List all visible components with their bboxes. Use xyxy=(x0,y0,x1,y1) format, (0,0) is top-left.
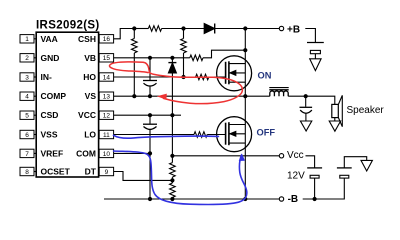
ground below battery B1 xyxy=(310,59,321,71)
svg-text:VCC: VCC xyxy=(78,110,96,120)
wire VS rail pin13 xyxy=(114,95,270,97)
wire CSH pin16 to top rail xyxy=(114,29,135,39)
node VS output xyxy=(304,94,308,98)
pin labels left xyxy=(41,34,71,177)
svg-text:3: 3 xyxy=(25,74,29,81)
resistor R3 HO gate xyxy=(196,74,209,80)
node HO pullup xyxy=(181,75,185,79)
wire ON trunk xyxy=(244,29,246,97)
wire top rail diode to +B xyxy=(215,28,280,30)
battery B2 12V xyxy=(307,168,322,199)
svg-text:Vcc: Vcc xyxy=(287,150,304,161)
pin 9 box xyxy=(99,167,113,175)
node trunk bootstrap feed xyxy=(243,48,247,52)
resistor R6 DT divider lower xyxy=(170,180,176,199)
ground below speaker xyxy=(329,121,340,131)
pin 2 box xyxy=(20,54,36,62)
node VS trunk xyxy=(243,94,247,98)
svg-text:VB: VB xyxy=(84,53,96,63)
node VB diode xyxy=(170,56,174,60)
pin 13 box xyxy=(99,92,113,100)
terminal -B xyxy=(279,197,283,201)
wire top rail to diode xyxy=(162,28,205,30)
svg-text:OFF: OFF xyxy=(257,128,276,138)
svg-text:ON: ON xyxy=(258,70,272,80)
pin 4 box xyxy=(20,92,36,100)
svg-text:8: 8 xyxy=(25,169,29,176)
annotation red arrowhead xyxy=(157,94,167,100)
battery B1 xyxy=(307,43,324,59)
node -B com xyxy=(148,197,152,201)
svg-text:COM: COM xyxy=(76,148,96,158)
svg-text:HO: HO xyxy=(83,72,96,82)
pin 14 box xyxy=(99,73,113,81)
pin 1 box xyxy=(20,35,36,43)
wire VS output node xyxy=(288,96,335,104)
node VB cap xyxy=(148,56,152,60)
svg-text:5: 5 xyxy=(25,113,29,120)
resistor R1 top rail xyxy=(148,26,161,32)
svg-text:CSD: CSD xyxy=(41,110,59,120)
svg-text:GND: GND xyxy=(41,53,60,63)
svg-text:IN-: IN- xyxy=(41,72,53,82)
svg-text:IRS2092(S): IRS2092(S) xyxy=(36,19,100,31)
capacitor C2 VCC decoupling xyxy=(143,115,157,153)
resistor R2 VB bootstrap xyxy=(190,55,203,61)
svg-text:LO: LO xyxy=(84,130,96,140)
resistor R5 DT divider upper xyxy=(170,156,176,181)
diode D2 bootstrap VCC-VB xyxy=(168,58,176,156)
capacitor C1 bootstrap VB-VS xyxy=(143,58,157,96)
svg-text:12V: 12V xyxy=(287,171,305,182)
pin 6 box xyxy=(20,130,36,138)
node Vcc divider xyxy=(170,154,174,158)
svg-text:Speaker: Speaker xyxy=(347,105,385,116)
wire VCC rail pin12 xyxy=(114,114,181,116)
annotation red loop arrow xyxy=(109,62,242,104)
wire +B to battery B1 xyxy=(305,29,315,43)
node top rail R column xyxy=(132,26,136,30)
pin 12 box xyxy=(99,111,113,119)
ground below output cap xyxy=(300,121,311,131)
annotation blue arrowhead xyxy=(239,153,245,161)
wire VB rail pin15 xyxy=(114,57,190,59)
svg-text:2: 2 xyxy=(25,55,29,62)
svg-text:OCSET: OCSET xyxy=(41,167,71,177)
wire COM pin10 xyxy=(114,152,150,154)
svg-text:+B: +B xyxy=(287,24,300,35)
wire top rail segment to resistor R1 xyxy=(134,28,148,30)
pin 11 box xyxy=(99,130,113,138)
svg-text:VS: VS xyxy=(85,91,97,101)
pin 15 box xyxy=(99,54,113,62)
node VCC cap xyxy=(148,113,152,117)
resistor R4 LO gate xyxy=(194,132,207,138)
annotation blue LO line xyxy=(114,135,247,204)
pin 10 box xyxy=(99,149,113,157)
op-amp U1 IRS2092(S) IC body xyxy=(36,32,98,177)
ground right of battery B3 xyxy=(361,160,372,171)
pin 7 box xyxy=(20,149,36,157)
svg-text:10: 10 xyxy=(103,151,111,158)
node top rail R2 column xyxy=(181,26,185,30)
diode D1 xyxy=(204,24,215,34)
node COM cap xyxy=(148,151,152,155)
svg-text:6: 6 xyxy=(25,132,29,139)
wire DT pin9 to divider tap xyxy=(114,172,173,181)
battery B3 xyxy=(337,157,367,178)
pin 3 box xyxy=(20,73,36,81)
pin 8 box xyxy=(20,167,36,175)
wire vertical resistor column at x=183.5 xyxy=(181,29,187,78)
pin 16 box xyxy=(99,35,113,43)
svg-text:DT: DT xyxy=(85,167,97,177)
wire OFF trunk xyxy=(244,96,246,199)
transistor Q2 OFF MOSFET xyxy=(217,117,252,152)
wire VB resistor to ON drain trunk xyxy=(203,50,245,58)
node -B battery xyxy=(313,197,317,201)
node VS cap xyxy=(148,94,152,98)
node -B trunk xyxy=(243,197,247,201)
svg-text:14: 14 xyxy=(103,74,111,81)
svg-text:4: 4 xyxy=(25,94,29,101)
svg-text:16: 16 xyxy=(103,36,111,43)
node top rail trunk xyxy=(243,26,247,30)
node VS r1 xyxy=(132,94,136,98)
wire LO rail pin11 xyxy=(114,134,194,136)
speaker SP1 xyxy=(332,95,343,126)
pin 5 box xyxy=(20,111,36,119)
pin labels right xyxy=(76,34,97,177)
wire -B bottom rail xyxy=(104,198,279,200)
wire Vcc to battery B2 xyxy=(306,156,315,168)
wire HO rail pin14 xyxy=(114,76,196,78)
svg-text:VSS: VSS xyxy=(41,130,58,140)
svg-text:VREF: VREF xyxy=(41,148,64,158)
wire COM cap column to -B rail xyxy=(149,153,151,199)
terminal Vcc xyxy=(279,154,283,158)
svg-text:9: 9 xyxy=(105,169,109,176)
svg-text:7: 7 xyxy=(25,151,29,158)
svg-text:12: 12 xyxy=(103,113,111,120)
inductor L1 xyxy=(269,88,288,97)
wire gate lead ON xyxy=(209,76,226,78)
svg-text:1: 1 xyxy=(25,36,29,43)
pin numbers xyxy=(25,36,110,176)
capacitor C3 output xyxy=(300,96,313,121)
wire vertical resistor column at x=134.3 xyxy=(132,29,138,97)
wire Vcc terminal line xyxy=(172,155,279,157)
svg-text:VAA: VAA xyxy=(41,34,58,44)
annotation blue COM loop arrow xyxy=(114,151,247,205)
svg-text:13: 13 xyxy=(103,94,111,101)
svg-text:COMP: COMP xyxy=(41,91,67,101)
node VCC diode xyxy=(170,113,174,117)
transistor Q1 ON MOSFET xyxy=(217,56,252,91)
node DT tap xyxy=(170,178,174,182)
svg-text:11: 11 xyxy=(103,132,110,139)
svg-text:-B: -B xyxy=(288,194,299,205)
terminal +B xyxy=(279,26,283,30)
wire -B rail right segment xyxy=(303,178,345,199)
wire gate lead OFF xyxy=(207,134,225,136)
node -B divider xyxy=(170,197,174,201)
svg-text:15: 15 xyxy=(103,55,111,62)
svg-text:CSH: CSH xyxy=(78,34,96,44)
